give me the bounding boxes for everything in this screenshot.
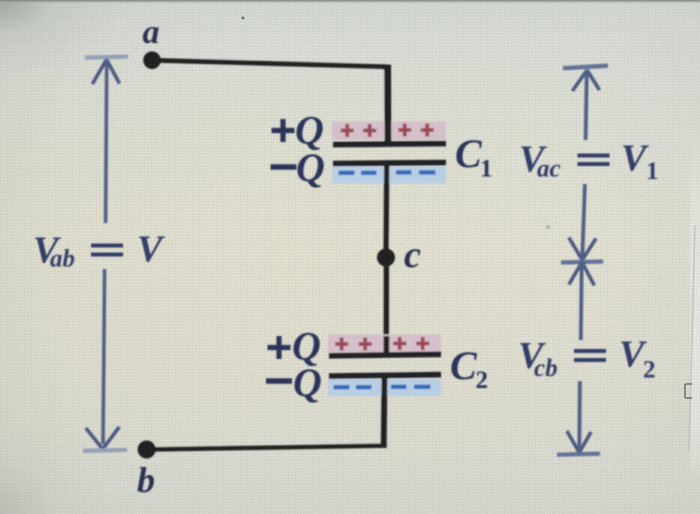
- capacitor C1 bottom plate: [333, 160, 446, 167]
- node b: [138, 441, 156, 459]
- page edge mark right: [689, 225, 695, 450]
- capacitor C2 bottom plate: [329, 372, 441, 379]
- capacitor C1 minus charges: [339, 170, 436, 175]
- voltage arrow Vac: down arrowhead at center: [569, 238, 596, 261]
- voltage arrow Vab: top bar: [85, 55, 128, 60]
- chromatic fringe on lead: [382, 72, 384, 120]
- label -Q of C2: [266, 378, 292, 384]
- voltage arrow Vcb: upper shaft: [579, 264, 584, 340]
- capacitor C2 plus charges: [335, 337, 429, 351]
- voltage arrow Vac: up arrowhead: [572, 70, 599, 91]
- node c: [377, 249, 395, 267]
- capacitor C2 minus charges: [334, 385, 431, 390]
- voltage arrow Vab: down arrowhead: [86, 427, 120, 449]
- label +Q of C1: [272, 119, 295, 142]
- voltage arrow Vac: top bar: [563, 64, 608, 71]
- capacitor C1 plate charge band -: [332, 167, 446, 184]
- voltage arrow Vcb: bottom bar: [557, 452, 600, 457]
- node a: [143, 51, 161, 69]
- wire: C2 bottom plate to bottom corner: [381, 375, 388, 447]
- capacitor C2 plate charge band -: [328, 379, 441, 396]
- voltage arrow Vab: upper shaft: [106, 60, 107, 224]
- voltage arrow Vac: upper shaft: [586, 70, 587, 140]
- capacitor C2 top plate: [329, 351, 441, 358]
- wire top: a to corner: [152, 58, 387, 69]
- wire: C1 bottom plate through - band to node c: [383, 163, 389, 256]
- dust speck: [242, 17, 245, 20]
- label +Q of C2: [268, 336, 291, 359]
- voltage arrow Vcb: up arrowhead at center: [569, 262, 594, 286]
- voltage arrow Vcb: down arrowhead: [567, 431, 591, 453]
- voltage arrow Vab: bottom bar: [83, 448, 127, 453]
- capacitor C1 plate charge band +: [332, 122, 446, 141]
- wire: corner down through + band to C1 top plate: [384, 65, 391, 144]
- voltage arrow Vab: lower shaft: [103, 269, 105, 444]
- wire: node c to C2 top plate: [384, 258, 390, 356]
- voltage arrow Vab: up arrowhead: [92, 60, 119, 85]
- shared center bar: [561, 259, 603, 264]
- voltage arrow Vcb: lower shaft: [577, 381, 581, 448]
- wire: through C2 + band to top plate (reinforce): [383, 336, 389, 355]
- capacitor C1 plus charges: [341, 124, 434, 138]
- wire bottom: corner to node b: [150, 444, 387, 452]
- capacitor C2 plate charge band +: [328, 335, 441, 353]
- label -Q of C1: [271, 164, 297, 170]
- capacitor C1 top plate: [333, 141, 446, 148]
- voltage arrow Vac: mid shaft: [582, 184, 585, 258]
